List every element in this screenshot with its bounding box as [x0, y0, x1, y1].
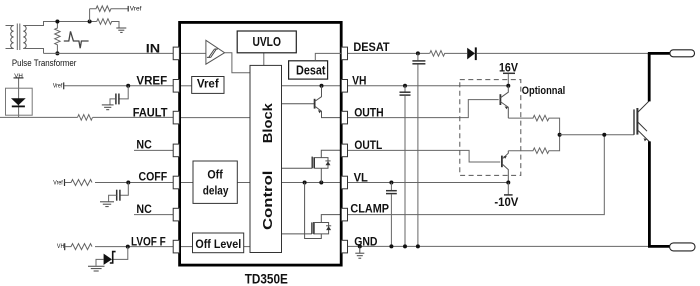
wire bottom terminal (thick) — [648, 245, 670, 248]
IC body TD350E — [180, 22, 342, 265]
resistor R7 desat — [430, 51, 467, 57]
node J14 — [506, 84, 510, 88]
ground G1 — [116, 28, 126, 32]
wire off-level to control — [244, 246, 250, 248]
box UVLO — [237, 31, 296, 53]
node J13 — [416, 244, 420, 248]
pin COFF — [173, 176, 179, 189]
svg-text:Vref: Vref — [130, 6, 142, 12]
svg-text:Pulse Transformer: Pulse Transformer — [12, 58, 77, 68]
capacitor C5 (COFF) — [109, 183, 129, 202]
ground G4 — [88, 266, 105, 271]
capacitor C2 (VH) — [400, 86, 411, 247]
svg-text:TD350E: TD350E — [245, 270, 288, 286]
wire OUTH row to buffer base — [347, 100, 498, 118]
box Desat — [289, 61, 328, 79]
node J1 — [55, 20, 59, 24]
pin NC2 — [173, 208, 179, 221]
wire gate node to IGBT — [560, 134, 634, 136]
rail Vref top — [128, 6, 142, 12]
wire off-delay to control — [237, 182, 250, 184]
wire FAULT to pin — [93, 116, 174, 118]
pin OUTH — [341, 111, 347, 124]
svg-text:delay: delay — [203, 185, 229, 197]
wire FAULT row left — [0, 116, 78, 118]
resistor R9 (gate off) — [508, 135, 559, 154]
resistor R1 to Vref — [90, 6, 128, 12]
node J9 — [389, 181, 393, 185]
wire DESAT row — [347, 52, 429, 54]
box Control Block — [250, 65, 282, 252]
mosfet M2 (clamp) — [282, 183, 342, 239]
wire VL internal — [282, 182, 342, 184]
rail Vref (COFF row) — [53, 179, 64, 187]
node J17 — [602, 133, 606, 137]
node J15 (gate junction) — [558, 133, 562, 137]
pin LVOFF — [173, 240, 179, 253]
node J2 — [55, 51, 59, 55]
pin VREF — [173, 80, 179, 93]
wire NC2 stub — [134, 214, 173, 216]
pin GND — [341, 240, 347, 253]
terminal lug bottom — [670, 243, 695, 251]
svg-text:OUTL: OUTL — [354, 138, 382, 152]
transistor Q2 (buffer PNP) — [502, 151, 508, 183]
svg-text:Vref: Vref — [53, 181, 63, 187]
svg-text:OUTH: OUTH — [354, 105, 384, 119]
wire top terminal (thick) — [648, 52, 671, 55]
node J12 — [403, 244, 407, 248]
pin IN — [173, 47, 179, 60]
node J18 — [320, 84, 324, 88]
resistor R6 lvoff — [65, 244, 92, 250]
node J4 — [126, 84, 130, 88]
svg-text:Vref: Vref — [197, 77, 220, 91]
svg-text:NC: NC — [136, 202, 152, 216]
wire LVOFF internal — [179, 246, 192, 248]
pin FAULT — [173, 111, 179, 124]
dashed optional box — [460, 80, 521, 176]
svg-text:VH: VH — [352, 73, 366, 87]
svg-text:-10V: -10V — [494, 197, 518, 209]
box Off Level — [193, 233, 244, 253]
svg-text:IN: IN — [146, 42, 160, 56]
node J10 — [358, 244, 362, 248]
capacitor C4 (VREF) — [110, 86, 128, 105]
resistor R3 termination (vertical) — [55, 22, 60, 54]
wire LVOFF row — [95, 246, 173, 248]
wire GND row — [347, 245, 648, 247]
pin VL — [341, 176, 347, 189]
wire UVLO to control — [263, 53, 265, 66]
svg-text:NC: NC — [136, 138, 152, 152]
svg-text:Vref: Vref — [53, 84, 63, 90]
resistor R8 (gate on) — [508, 115, 559, 135]
svg-text:Block: Block — [261, 103, 275, 143]
capacitor C3 (VL) — [386, 183, 397, 247]
rail Vref (VREF row) — [53, 82, 64, 89]
svg-text:LVOF F: LVOF F — [131, 234, 166, 248]
rail -10V — [494, 183, 518, 210]
pin VH — [341, 80, 347, 93]
wire NC1 stub — [134, 149, 173, 151]
diode D1 (desat blanking) — [467, 47, 476, 60]
transistor Q1 (buffer NPN) — [500, 86, 508, 118]
capacitor C1 (desat) — [412, 53, 425, 246]
box Off delay — [193, 161, 237, 203]
terminal lug top — [670, 50, 695, 57]
ground G3 — [100, 202, 114, 207]
diode D2 (to VH) — [11, 98, 26, 106]
mosfet M1 (pull-down to OUTL) — [282, 150, 342, 182]
wire OUTL row to buffer base — [347, 150, 500, 162]
rail VH (LVOFF row) — [57, 243, 65, 250]
node J11 — [389, 244, 393, 248]
node J8 — [403, 84, 407, 88]
svg-text:Desat: Desat — [296, 63, 326, 78]
svg-text:VREF: VREF — [136, 73, 167, 87]
wire FAULT internal — [179, 117, 250, 119]
wire IGBT collector (thick) — [648, 53, 651, 101]
wire CLAMP row to gate node — [347, 135, 604, 215]
wire IGBT emitter (thick) — [648, 141, 651, 246]
wire secondary bottom to IN row — [23, 49, 43, 54]
op-amp U2 (input comparator) — [206, 40, 225, 64]
wire COFF row — [95, 182, 173, 184]
wire IN row — [44, 52, 174, 54]
node J3 — [88, 20, 92, 24]
wire diode to collector — [477, 52, 649, 54]
resistor R5 coff — [65, 180, 92, 186]
zener diode D3 — [96, 247, 128, 266]
node J20 — [319, 181, 323, 185]
transistor Q4 (internal NPN) — [282, 86, 342, 118]
svg-text:COFF: COFF — [139, 170, 168, 184]
node J6 — [126, 245, 130, 249]
svg-text:FAULT: FAULT — [133, 105, 168, 119]
box around diode D2 — [6, 88, 33, 115]
wire desat box to pin — [315, 53, 341, 60]
wire VREF row — [64, 85, 173, 87]
node J7 — [416, 51, 420, 55]
pin OUTL — [341, 144, 347, 157]
wire secondary top to node row — [23, 22, 96, 26]
svg-text:GND: GND — [354, 235, 378, 249]
resistor R2 to ground — [97, 19, 119, 28]
wire COFF internal — [179, 182, 193, 184]
svg-text:Optionnal: Optionnal — [522, 85, 565, 97]
wire IN internal — [179, 52, 206, 54]
rail VH left — [14, 73, 24, 117]
wire op-amp out to control — [225, 53, 250, 73]
IGBT Q3 — [634, 101, 649, 141]
pin DESAT — [341, 47, 347, 60]
box Vref — [192, 77, 224, 94]
waveform pulse icon — [64, 31, 89, 48]
svg-text:UVLO: UVLO — [252, 34, 281, 49]
wire VREF internal — [179, 85, 191, 87]
pin NC1 — [173, 144, 179, 157]
svg-text:VH: VH — [57, 244, 64, 250]
wire VH row — [347, 85, 508, 87]
rail 16V — [499, 62, 518, 85]
wire VL row — [347, 182, 508, 184]
svg-text:Off: Off — [207, 170, 223, 182]
pin CLAMP — [341, 208, 347, 221]
svg-text:Off Level: Off Level — [195, 237, 241, 251]
wire VH internal — [282, 85, 342, 87]
resistor R4 fault — [78, 115, 93, 121]
svg-text:CLAMP: CLAMP — [350, 201, 389, 215]
wire branch up — [89, 9, 91, 22]
ground G2 — [102, 105, 114, 110]
ground G5 — [355, 246, 364, 258]
pulse transformer T1 — [6, 24, 27, 51]
node J19 — [303, 181, 307, 185]
node J16 — [506, 181, 510, 185]
node J5 — [126, 181, 130, 185]
svg-text:DESAT: DESAT — [353, 40, 390, 54]
svg-text:Control: Control — [261, 171, 275, 231]
svg-text:VL: VL — [354, 170, 368, 184]
